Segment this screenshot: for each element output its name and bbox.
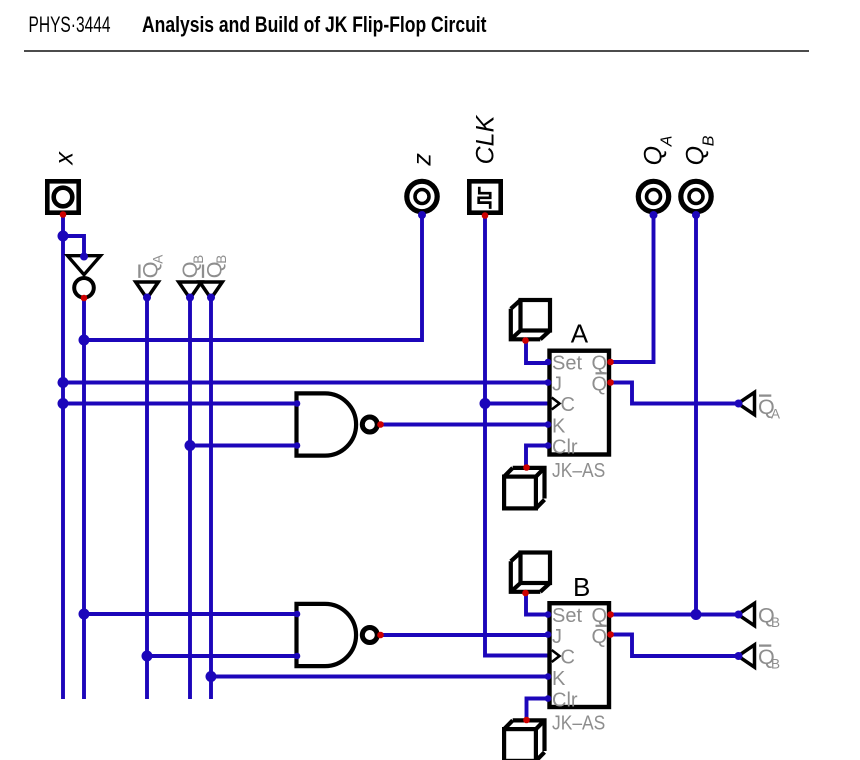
svg-text:Q: Q [592,626,608,648]
svg-text:C: C [561,647,575,669]
junction xbar/z [79,335,90,346]
wire Q_A [610,216,654,362]
pin dot Clr_A [545,442,552,449]
wire CLK vertical and C_B [485,216,549,656]
red dot cube Clr_B [523,717,530,724]
svg-text:CLK: CLK [472,114,500,164]
junction xbar/NAND2 [79,609,90,620]
label tag QB right [758,604,780,631]
inverter U1 [68,256,101,298]
svg-text:Set: Set [552,353,582,375]
red dot Qbar_B pin [607,631,614,638]
wire z net [84,216,422,340]
tag QB right [738,603,755,625]
wire K_A [381,423,550,427]
wire K_B [211,675,549,679]
red dot pin CLK [482,212,489,219]
clock wedge B [552,650,560,662]
junction x/NAND1 [58,398,69,409]
label tag QbarA right [758,395,780,422]
junction QB net [691,609,702,620]
pin dot NAND2 in top [294,611,301,618]
svg-text:Q: Q [592,353,608,375]
pin dot QA [650,211,658,219]
svg-text:JK–AS: JK–AS [552,713,605,735]
wire J_B [381,633,550,637]
pin dot J_B [545,631,552,638]
pin dot NAND1 in bottom [294,442,301,449]
svg-text:K: K [552,668,566,690]
clock wedge A [552,398,560,410]
dot tag QB right apex [735,611,743,619]
svg-text:A: A [151,255,166,264]
svg-text:z: z [409,153,437,167]
NAND gate G1 [297,393,378,455]
wire NAND2 input bottom [147,654,296,658]
label tag QbarB right [758,645,780,672]
wire Clr_B [527,699,550,720]
red dot pin x [60,211,67,218]
wire tag QbarB vertical [209,299,213,700]
output pin QA [638,181,668,211]
svg-text:Set: Set [552,605,582,627]
input pin x [47,181,78,212]
pin dot K_A [545,421,552,428]
pin dot J_A [545,379,552,386]
wire x branch to inverter U1 [63,236,84,256]
tag QB left [179,282,202,299]
red dot cube Set_A [522,337,529,344]
svg-text:B: B [573,572,590,602]
red dot NAND2 output [377,632,384,639]
junction x/J_A [58,377,69,388]
red dot cube Set_B [522,590,529,597]
junction x/inverter [58,231,69,242]
svg-text:Q: Q [592,373,608,395]
wire Clr_A [526,446,549,467]
tag QbarB right [738,645,755,667]
svg-text:Q: Q [640,146,668,165]
svg-text:B: B [214,255,229,264]
tag QbarA left [136,282,159,299]
wire tag QB vertical [188,299,192,700]
junction QbarB/K_B [206,671,217,682]
dot tag QbarB right apex [735,652,743,660]
flip-flop U2 box A [550,351,610,455]
red dot Q_A pin [607,359,614,366]
svg-text:Analysis and Build of JK Flip-: Analysis and Build of JK Flip-Flop Circu… [142,12,487,37]
pin labels B [552,605,607,712]
wire inverter output vertical [82,298,86,699]
output pin QB [681,181,711,211]
wire tag QbarA vertical [145,299,149,700]
vcc cube Set_A [511,300,550,339]
pin dot QB [692,211,700,219]
svg-text:B: B [771,657,780,672]
wire Q_B output net [610,613,738,617]
flip-flop U3 box B [550,603,610,707]
tag QbarA right [738,392,755,414]
wire QbarB net [610,635,738,657]
svg-text:B: B [771,615,780,630]
label tag QbarA left [139,255,166,279]
wire x vertical [61,215,65,699]
svg-text:Clr: Clr [552,436,578,458]
wire NAND2 input top [84,612,296,616]
tag QbarB left [200,282,223,299]
svg-text:K: K [552,415,566,437]
wire QbarA net [610,383,738,404]
svg-text:A: A [771,407,780,422]
vcc cube Clr_B [504,720,544,760]
dot tag QbarA apex [143,294,151,302]
pin dot NAND1 in top [294,400,301,407]
pin dot Set_A [545,359,552,366]
svg-text:Q: Q [682,146,710,165]
clock pin CLK [469,181,500,212]
svg-text:Q: Q [592,605,608,627]
svg-text:A: A [659,136,676,148]
header rule [24,50,809,52]
svg-text:PHYS·3444: PHYS·3444 [29,12,111,37]
svg-text:JK–AS: JK–AS [552,460,605,482]
red dot cube Clr_A [523,464,530,471]
pin dot K_B [545,673,552,680]
svg-text:Clr: Clr [552,690,578,712]
wire NAND1 input top [63,402,296,406]
pin dot Set_B [545,611,552,618]
output pin z [407,181,437,211]
wire Q_B top vertical [694,216,698,615]
svg-text:B: B [701,135,718,146]
svg-text:C: C [561,394,575,416]
label tag QbarB left [203,255,230,279]
dot tag QbarB apex [207,294,215,302]
junction QbarA/NAND2 [142,651,153,662]
vcc cube Set_B [511,553,550,592]
NAND gate G2 [297,604,378,666]
svg-text:x: x [51,151,79,166]
dot tag QbarA right apex [735,400,743,408]
svg-text:J: J [552,626,562,648]
pin dot NAND2 in bottom [294,653,301,660]
dot inverter input [80,253,88,261]
wire Set_B [526,593,549,615]
junction QB/NAND1 [185,440,196,451]
red dot NAND1 output [377,421,384,428]
red dot Q_B pin [607,611,614,618]
dot tag QB apex [186,294,194,302]
junction CLK/C_A [480,398,491,409]
wire Set_A [526,341,549,363]
red dot Qbar_A pin [607,379,614,386]
vcc cube Clr_A [504,468,544,509]
red dot inverter output [81,295,88,302]
pin labels A [552,353,607,459]
svg-text:A: A [571,319,589,349]
wire J_A [63,381,549,385]
svg-text:J: J [552,373,562,395]
pin dot z [418,211,426,219]
wire C_A [485,402,549,406]
wire NAND1 input bottom [190,444,296,448]
label tag QB left [178,255,206,279]
pin dot Clr_B [545,695,552,702]
